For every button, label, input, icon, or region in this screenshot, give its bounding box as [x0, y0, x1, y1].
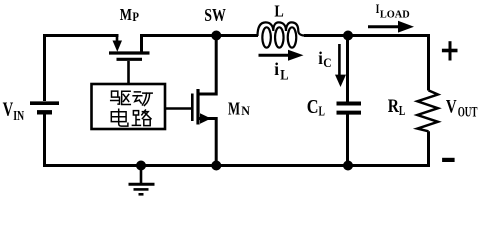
svg-text:L: L [280, 68, 289, 84]
svg-text:L: L [319, 105, 325, 120]
svg-text:i: i [318, 48, 323, 68]
svg-text:IN: IN [13, 109, 24, 124]
svg-text:M: M [120, 5, 132, 24]
svg-text:LOAD: LOAD [380, 10, 410, 21]
svg-text:OUT: OUT [458, 105, 478, 121]
svg-text:C: C [323, 55, 331, 70]
svg-text:C: C [307, 97, 319, 118]
svg-text:M: M [228, 98, 240, 118]
svg-text:SW: SW [204, 5, 226, 25]
svg-text:V: V [446, 97, 457, 118]
svg-text:L: L [399, 104, 405, 119]
svg-text:N: N [241, 104, 250, 118]
svg-text:L: L [274, 2, 283, 21]
svg-text:i: i [274, 59, 279, 79]
svg-text:V: V [3, 99, 14, 120]
svg-text:R: R [388, 96, 399, 117]
svg-text:P: P [132, 10, 139, 24]
